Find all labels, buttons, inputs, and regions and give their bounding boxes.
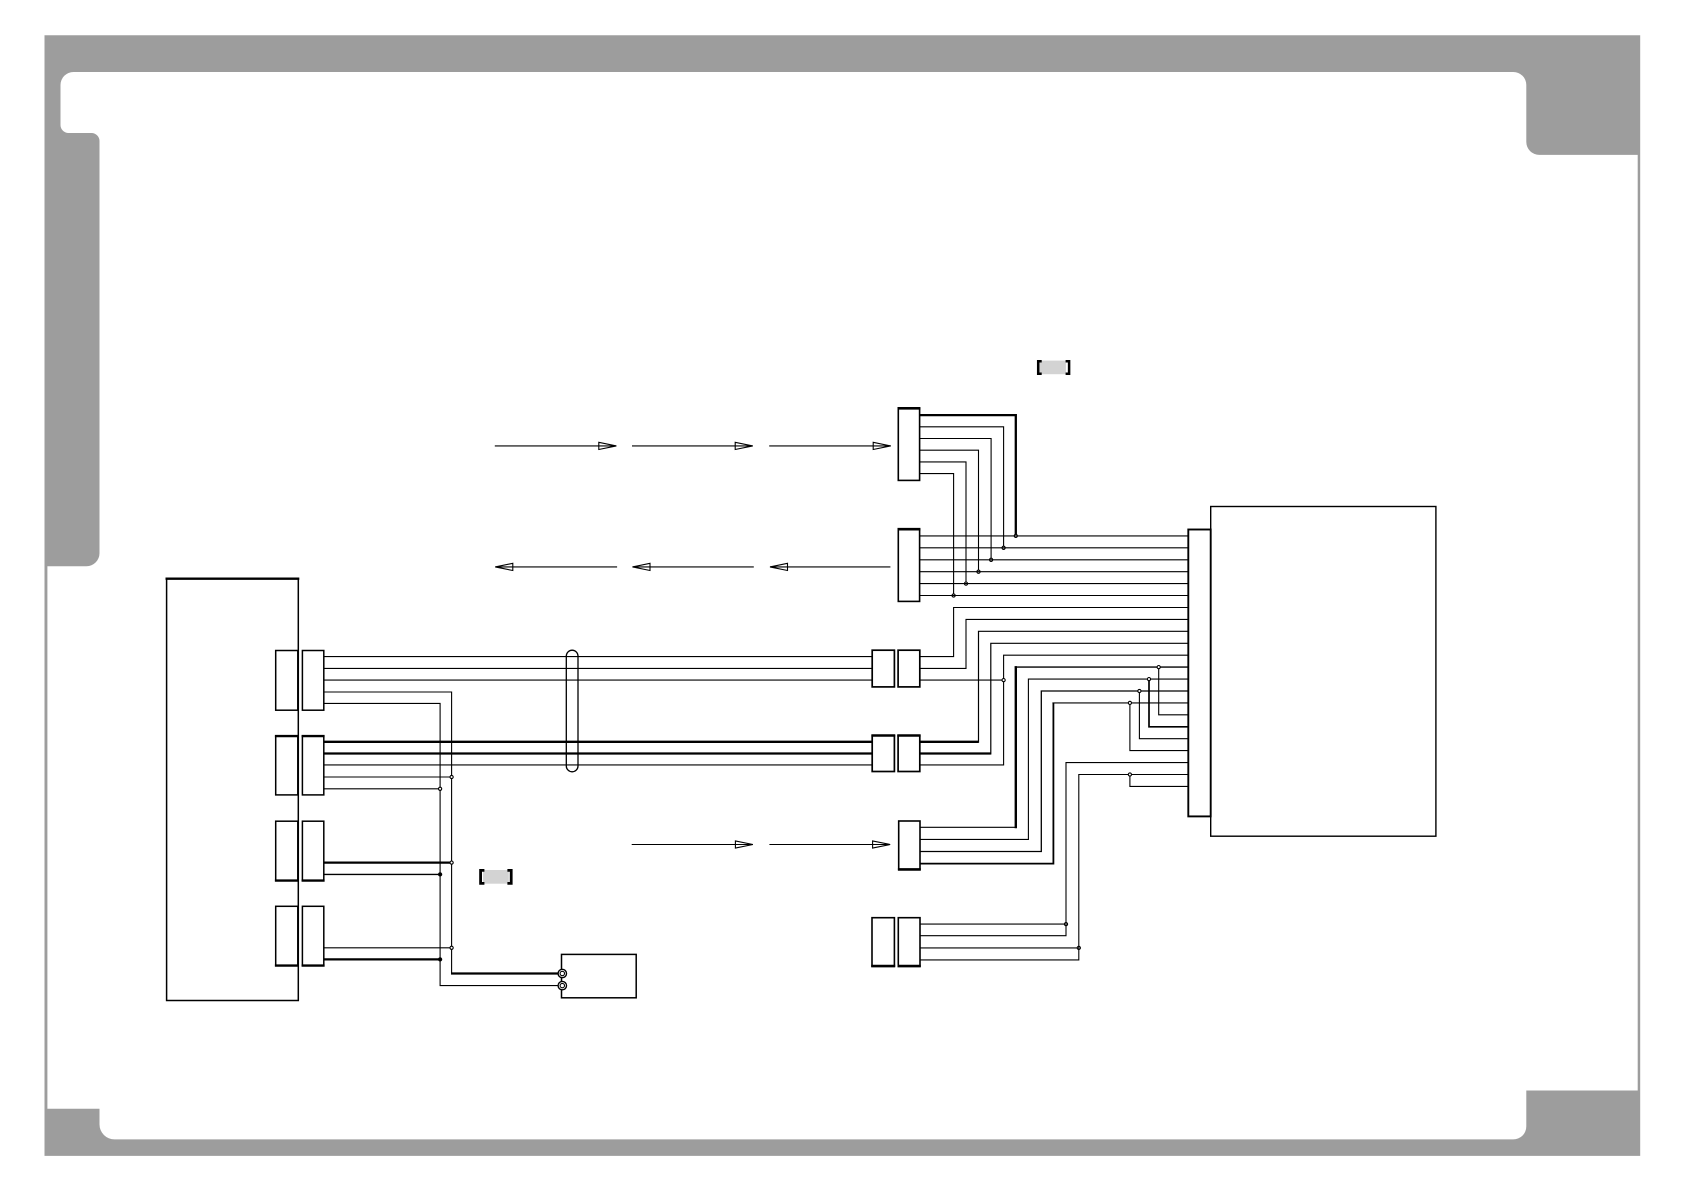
wire: bus A to terminal 1 (bold) <box>451 972 562 974</box>
wire: CN-D pin3 tee into riser <box>920 947 1079 949</box>
wire: pair2 pin2 bold line to mid pair2 <box>324 752 872 754</box>
connector CN-B <box>898 529 919 601</box>
connector pair4 on main board <box>276 906 298 965</box>
wire: pair3 pin2 join bus B <box>324 873 440 875</box>
connector mid pair 2 <box>872 736 894 772</box>
junction: pair4 pin2 / bus B (solder dot) <box>439 958 442 961</box>
wire: pair1 pin1 to mid-connector (through loop) <box>324 656 872 658</box>
wire: pair2 pin5 join bus B <box>324 788 440 790</box>
wire: CN-C pin3 via riser to strip <box>920 691 1188 852</box>
connector pair3 on main board <box>276 821 298 880</box>
wire: branch jog to strip row17 <box>1149 681 1188 727</box>
wire: pair2 pin3 to mid pair2 <box>324 764 872 766</box>
wire: CN-A pin1 (bold) down to CN-B pin1 <box>920 415 1016 536</box>
wire: pair1 pin4 down bus A to terminal box <box>324 692 452 974</box>
wire: pair4 pin2 (bold) join bus B <box>324 958 440 960</box>
junction: mid pair1 pin3 / riser <box>1002 679 1005 682</box>
wire: CN-B pin2 to strip <box>920 547 1189 549</box>
wire: CN-B pin6 to strip <box>920 595 1189 597</box>
junction: CN-A pin4 / CN-B pin4 <box>977 570 980 573</box>
junction: CN-A pin2 / CN-B pin2 <box>1002 546 1005 549</box>
wire: CN-D pin4 up riser to strip row21 <box>920 775 1188 960</box>
display module (right large block) <box>1211 507 1436 837</box>
part label tag 2 (lower-left, greyed) <box>481 870 512 884</box>
wire: pair2 pin4 join bus A <box>324 776 452 778</box>
junction: pair2 pin4 / bus A <box>450 775 453 778</box>
wire: mid pair1 pin2 up to strip <box>920 619 1189 668</box>
wire: CN-C pin1 via bold riser to strip <box>920 826 1016 828</box>
wire: branch jog to strip row16 <box>1159 669 1189 715</box>
wire: mid pair1 pin3 tee into riser <box>920 679 1004 681</box>
wire: CN-A pin6 down to CN-B pin6 <box>920 474 954 596</box>
junction: strip row12 branch <box>1157 666 1160 669</box>
wire: pair2 pin3 continues, up to strip <box>920 655 1189 765</box>
wire: mid pair1 pin1 up to strip <box>920 608 1189 657</box>
wire: pair2 pin1 continues to strip <box>920 741 979 743</box>
wire: pair1 pin5 down bus B to terminal box <box>324 703 563 985</box>
junction: pair3 pin2 / bus B (solder dot) <box>439 873 442 876</box>
junction: CN-D pin1 / riser <box>1064 923 1067 926</box>
connector CN-A (top) <box>898 408 919 480</box>
wire: branch jog to strip row18 <box>1139 693 1188 739</box>
junction: pair4 pin1 / bus A <box>450 946 453 949</box>
junction: strip row13 branch <box>1147 678 1150 681</box>
wire: CN-B pin3 to strip <box>920 559 1189 561</box>
wire: CN-D pin2 up riser to strip row20 <box>920 763 1188 936</box>
wire: pair1 pin3 to mid-connector <box>324 679 872 681</box>
connector pair CN-D (bottom) <box>872 918 894 966</box>
connector CN-C (lower) <box>899 821 920 869</box>
connector pair2 on main board <box>276 736 298 795</box>
connector mid pair 1 <box>872 650 894 687</box>
signal flow arrow row 1 (rightward) <box>495 442 891 449</box>
wire: CN-C pin4 (bold) via riser to strip <box>920 703 1053 864</box>
junction: CN-A pin1 / CN-B pin1 <box>1014 534 1017 537</box>
wire: branch jog to strip row22 <box>1130 776 1188 786</box>
wire: CN-B pin4 to strip <box>920 571 1189 573</box>
main board (left large block) <box>167 579 299 1001</box>
signal flow arrow row 3 (rightward) <box>632 841 890 848</box>
junction: strip row14 branch <box>1138 689 1141 692</box>
wire: CN-D pin1 tee into riser <box>920 923 1066 925</box>
wire: pair2 pin1 bold line to mid pair2 <box>324 741 872 743</box>
junction: pair2 pin5 / bus B <box>439 787 442 790</box>
wire: CN-A pin4 down to CN-B pin4 <box>920 450 979 572</box>
wire: pair2 pin2 continues to strip <box>920 752 991 754</box>
junction: pair3 pin1 / bus A <box>450 861 453 864</box>
terminal 2 <box>558 981 566 989</box>
wire: pair1 pin2 to mid-connector <box>324 667 872 669</box>
wire: pair3 pin1 (bold) join bus A <box>324 861 452 863</box>
wire: CN-C pin2 via riser to strip <box>920 679 1188 839</box>
board-to-display connector strip <box>1188 530 1210 817</box>
terminal 1 <box>558 969 566 977</box>
junction: strip row15 branch <box>1128 701 1131 704</box>
terminal box (speaker) <box>562 954 637 997</box>
wire: CN-B pin1 to strip <box>920 535 1189 537</box>
junction: CN-A pin3 / CN-B pin3 <box>990 558 993 561</box>
junction: CN-D pin3 / riser <box>1077 946 1080 949</box>
wire: CN-A pin2 down to CN-B pin2 <box>920 427 1004 548</box>
connector pair1 on main board <box>276 651 298 711</box>
wire: pair4 pin1 join bus A <box>324 947 452 949</box>
wire: CN-B pin5 to strip <box>920 583 1189 585</box>
signal flow arrow row 2 (leftward) <box>495 563 890 570</box>
junction: CN-A pin5 / CN-B pin5 <box>964 582 967 585</box>
junction: CN-A pin6 / CN-B pin6 <box>952 594 955 597</box>
wire: CN-A pin3 down to CN-B pin3 <box>920 439 992 560</box>
wire: branch jog to strip row19 <box>1130 704 1188 750</box>
wire: CN-A pin5 down to CN-B pin5 <box>920 462 966 584</box>
part label tag 1 (top, greyed) <box>1038 361 1069 375</box>
cable bundle loop <box>566 650 578 772</box>
junction: strip row21 branch <box>1128 773 1131 776</box>
